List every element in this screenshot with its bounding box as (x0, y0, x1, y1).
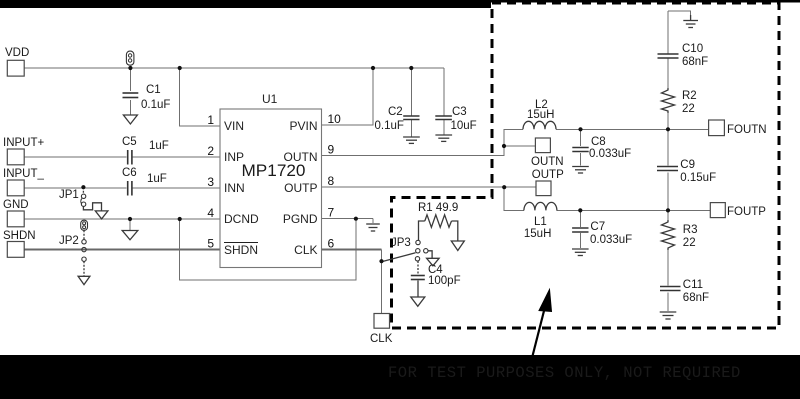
svg-text:2: 2 (207, 144, 214, 158)
svg-text:OUTN: OUTN (284, 150, 318, 164)
svg-text:C5: C5 (122, 136, 137, 148)
svg-text:JP3: JP3 (391, 237, 411, 249)
node C8 junction (578, 127, 582, 131)
jumper JP1 (59, 189, 86, 206)
wire top ground feed (668, 11, 691, 15)
svg-text:1: 1 (207, 113, 214, 127)
connector INPUT_ (3, 168, 45, 196)
node INN-JP1 junction (81, 185, 85, 189)
capacitor C5 (122, 136, 169, 165)
svg-text:0.033uF: 0.033uF (590, 234, 632, 246)
svg-text:C7: C7 (590, 221, 605, 233)
capacitor C7 (572, 221, 632, 246)
capacitor C10 (658, 43, 709, 68)
wire JP1 tap (82, 187, 84, 194)
wire JP3 lever (383, 253, 416, 262)
ground for JP3 hook (427, 258, 440, 266)
svg-text:R1 49.9: R1 49.9 (418, 202, 458, 214)
svg-text:22: 22 (682, 103, 695, 115)
connector SHDN (3, 230, 36, 257)
svg-text:OUTP: OUTP (532, 169, 564, 181)
svg-text:C9: C9 (680, 159, 695, 171)
svg-text:C10: C10 (682, 43, 703, 55)
wire JP3 top to R1 (417, 239, 419, 241)
svg-text:C11: C11 (683, 279, 703, 291)
svg-text:68nF: 68nF (683, 292, 709, 304)
node VDD-C2 junction (409, 66, 413, 70)
svg-text:FOUTN: FOUTN (727, 124, 767, 136)
connector GND (3, 199, 29, 227)
svg-text:DCND: DCND (224, 212, 259, 226)
earth ground below C3 (435, 135, 452, 141)
node GND loop junction (178, 217, 182, 221)
wire C4 to ground (417, 281, 419, 297)
capacitor C11 (660, 279, 709, 304)
svg-text:INP: INP (224, 150, 244, 164)
svg-text:GND: GND (3, 199, 29, 211)
wire C3 to ground (443, 119, 445, 134)
top black bar (0, 0, 491, 8)
jumper JP2 (59, 235, 86, 261)
wire PGND stub (372, 219, 374, 223)
wire C1 drop (129, 68, 131, 91)
earth ground below C2 (403, 137, 420, 143)
wire CLK drop to connector (381, 250, 383, 314)
connector OUTP (532, 169, 564, 196)
ground below C1 (123, 115, 137, 124)
svg-text:VDD: VDD (5, 47, 29, 59)
IC U1 MP1720 (220, 92, 322, 268)
svg-text:4: 4 (207, 206, 214, 220)
svg-text:OUTP: OUTP (284, 181, 317, 195)
wire ground U-loop (180, 219, 356, 280)
wire C7 drop (579, 210, 581, 227)
earth ground top right (683, 15, 698, 28)
node CLK-JP3 junction (379, 259, 383, 263)
wire C11 to ground (667, 293, 669, 312)
capacitor C4 (411, 264, 461, 287)
svg-text:CLK: CLK (294, 243, 317, 257)
svg-text:0.1uF: 0.1uF (141, 99, 170, 111)
node FOUTN junction (666, 127, 670, 131)
svg-text:8: 8 (328, 174, 335, 188)
connector FOUTP (710, 203, 766, 218)
connector FOUTN (709, 120, 767, 136)
svg-text:INN: INN (224, 181, 245, 195)
wire C7 to ground (579, 233, 581, 248)
svg-text:C3: C3 (452, 106, 467, 118)
svg-text:SHDN: SHDN (3, 230, 36, 242)
capacitor C1 (123, 84, 171, 111)
wire GND to pin4 (24, 218, 220, 220)
wire C10 column top (667, 11, 669, 53)
jumper symbol on VDD rail (126, 51, 133, 65)
wire R1 left lead (419, 221, 425, 240)
svg-text:FOUTP: FOUTP (727, 206, 766, 218)
svg-text:10: 10 (328, 112, 342, 126)
node VDD-pin1 junction (178, 66, 182, 70)
wire pin6 CLK down to connector (322, 249, 382, 251)
svg-text:C6: C6 (122, 167, 137, 179)
arrow (533, 290, 552, 357)
wire pin7 PGND (322, 218, 374, 220)
svg-text:68nF: 68nF (682, 56, 708, 68)
svg-text:INPUT+: INPUT+ (3, 137, 45, 149)
svg-text:100pF: 100pF (428, 275, 461, 287)
inductor L2 (523, 99, 556, 129)
dashed highlight box (392, 3, 780, 328)
svg-text:3: 3 (207, 175, 214, 189)
inductor L1 (524, 202, 557, 240)
svg-text:7: 7 (328, 206, 335, 220)
wire pin8 OUTP (322, 186, 505, 188)
node VDD-C1 junction (128, 66, 132, 70)
svg-text:1uF: 1uF (147, 173, 167, 185)
node OUTN junction (502, 144, 506, 148)
jumper JP3 (391, 237, 428, 261)
earth ground below C7 (572, 249, 589, 256)
wire C6 to pin3 (133, 187, 221, 189)
svg-text:9: 9 (328, 143, 335, 157)
svg-text:15uH: 15uH (524, 228, 552, 240)
wire VDD rail (24, 67, 444, 69)
svg-text:SHDN: SHDN (224, 243, 258, 257)
svg-text:C8: C8 (591, 136, 606, 148)
capacitor C9 (657, 159, 716, 184)
earth ground at PGND (366, 224, 380, 231)
ground for JP1 hook (95, 211, 108, 219)
wire JP1 hook to ground (83, 203, 101, 211)
wire C1 to ground (129, 100, 131, 115)
node VDD-pin10 junction (371, 66, 375, 70)
wire C2 to ground (410, 119, 412, 136)
svg-text:VIN: VIN (224, 119, 244, 133)
svg-text:5: 5 (207, 237, 214, 251)
wire INPUT+ to C5 (24, 156, 127, 158)
node FOUTP junction (666, 208, 670, 212)
wire SHDN to pin5 (24, 249, 220, 251)
capacitor C8 (572, 136, 631, 160)
svg-text:10uF: 10uF (451, 120, 477, 132)
svg-text:C2: C2 (388, 106, 403, 118)
wire R1 right lead (452, 221, 458, 241)
wire GND stub to ground (129, 219, 131, 230)
svg-text:22: 22 (683, 237, 696, 249)
wire pin10 to VDD (322, 68, 374, 125)
svg-text:0.1uF: 0.1uF (375, 120, 404, 132)
ground below C4 (411, 297, 425, 306)
wire pin1 drop from VDD (180, 68, 220, 126)
wire C8 drop (580, 129, 582, 146)
wire C9 to FOUTP node (667, 173, 669, 211)
ground below JP2 (78, 276, 90, 284)
svg-text:R3: R3 (683, 224, 698, 236)
wire pin9 OUTN to filter (322, 129, 524, 155)
node PGND loop junction (354, 217, 358, 221)
svg-text:PVIN: PVIN (289, 119, 317, 133)
svg-text:C1: C1 (146, 84, 161, 96)
svg-text:U1: U1 (262, 92, 278, 106)
jumper symbol on GND line (81, 220, 88, 230)
capacitor C2 (375, 106, 420, 132)
wire JP3 gnd hook (428, 251, 432, 258)
ground stub triangle on GND line (122, 231, 138, 240)
wire L1 to FOUTP (557, 209, 711, 211)
wire FOUTN node to C9 (667, 129, 669, 165)
svg-text:OUTN: OUTN (531, 156, 564, 168)
wire OUTP drop to L1 (504, 187, 524, 210)
wire C2 drop (410, 68, 412, 116)
wire L2 to FOUTN (556, 128, 709, 130)
svg-text:PGND: PGND (283, 212, 318, 226)
svg-text:0.15uF: 0.15uF (680, 172, 716, 184)
svg-text:FOR TEST PURPOSES ONLY, NOT RE: FOR TEST PURPOSES ONLY, NOT REQUIRED (388, 364, 741, 382)
ground below R1 (451, 241, 464, 251)
capacitor C6 (122, 167, 167, 196)
wire C10 to R2 (667, 59, 669, 88)
wire JP3 to C4 (417, 261, 419, 275)
connector VDD (5, 47, 29, 76)
earth ground below C8 (572, 167, 589, 174)
wire C3 drop (443, 68, 445, 116)
svg-text:1uF: 1uF (149, 140, 169, 152)
wire INPUT_ to C6 (24, 187, 127, 189)
resistor R2 (662, 88, 697, 115)
svg-text:JP1: JP1 (59, 189, 79, 201)
node C7 junction (578, 208, 582, 212)
svg-text:INPUT_: INPUT_ (3, 168, 45, 180)
svg-text:0.033uF: 0.033uF (589, 148, 631, 160)
wire C8 to ground (580, 153, 582, 166)
resistor R1 (418, 202, 458, 227)
wire JP2 column (83, 230, 85, 239)
svg-text:L1: L1 (534, 216, 547, 228)
svg-text:15uH: 15uH (527, 109, 555, 121)
connector INPUT+ (3, 137, 45, 165)
connector OUTN (531, 138, 564, 168)
svg-text:JP2: JP2 (59, 235, 79, 247)
connector CLK (370, 314, 393, 346)
wire JP2 lower (83, 261, 85, 276)
node OUTP junction (502, 185, 506, 189)
bottom black bar (0, 355, 800, 399)
node GND stub junction (128, 217, 132, 221)
resistor R3 (662, 220, 698, 250)
svg-text:CLK: CLK (370, 333, 393, 345)
svg-text:R2: R2 (682, 90, 697, 102)
wire OUTN connector tap (504, 145, 535, 147)
wire FOUTP node to R3 (667, 210, 669, 220)
capacitor C3 (435, 106, 476, 132)
wire R3 to C11 (667, 250, 669, 286)
earth ground below C11 (660, 312, 677, 319)
wire R2 to FOUTN node (667, 113, 669, 129)
svg-text:6: 6 (328, 237, 335, 251)
wire OUTP connector tap (504, 186, 536, 188)
wire C5 to pin2 (133, 156, 221, 158)
